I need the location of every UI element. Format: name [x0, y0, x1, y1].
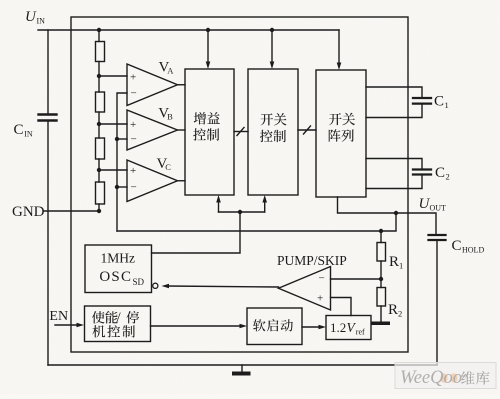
node chain tap A	[97, 74, 101, 78]
wire PUMP/SKIP plus input	[331, 298, 352, 316]
arrow into U3 top	[337, 63, 342, 71]
capacitor C2	[413, 168, 431, 170]
arrow PUMP/SKIP to OSC	[162, 284, 170, 289]
wire C_IN branch	[47, 30, 49, 115]
arrow to softstart	[240, 324, 248, 329]
ground bar under R2	[371, 322, 390, 326]
arrow clock U2	[262, 195, 267, 203]
wire U_IN to switch-array arrow	[338, 30, 340, 63]
node U_IN/chain	[97, 28, 101, 32]
wire softstart to vref	[302, 326, 319, 328]
op-amp V_B	[127, 110, 178, 150]
wire C2 bottom pin	[366, 175, 422, 189]
block 1.2Vref	[326, 316, 371, 340]
text 开关控制	[261, 113, 274, 125]
wire U_OUT feedback branch	[381, 213, 396, 231]
arrow to vref	[319, 325, 327, 330]
wire	[98, 112, 100, 138]
bus slash U2-U3	[304, 126, 311, 134]
resistor R2	[377, 288, 386, 307]
wire U_IN to switch-control arrow	[271, 30, 273, 62]
wire V_A output	[178, 84, 179, 86]
node U_IN/U1	[206, 28, 210, 32]
arrow clock U1	[216, 195, 221, 203]
resistor chain R_c	[96, 138, 105, 159]
node chain tap B	[97, 122, 101, 126]
wire EN input	[55, 324, 78, 326]
node feedback/R1	[379, 229, 383, 233]
wire U_OUT from switch array	[338, 197, 437, 235]
block U2 switch control 开关控制	[248, 69, 298, 195]
wire tap to V_A plus	[99, 75, 127, 77]
wire C2 top pin	[366, 159, 422, 170]
block OSC 1MHz	[85, 245, 152, 293]
capacitor C_IN	[39, 113, 57, 115]
wire V_C minus	[117, 186, 127, 188]
text 软启动	[253, 319, 266, 331]
wire R2 to ground	[380, 306, 382, 322]
resistor chain R_d	[96, 182, 105, 204]
bubble on OSC_SD input	[153, 283, 158, 288]
watermark 维库	[461, 371, 474, 384]
wire U_IN to gain-control arrow	[207, 30, 209, 62]
node V_C minus	[115, 185, 119, 189]
wire clock arrow U1	[218, 202, 220, 212]
wire V_B minus	[117, 138, 127, 140]
wire U_IN rail	[38, 29, 339, 31]
wire OSC clock out	[152, 212, 241, 253]
node chain GND	[97, 209, 101, 213]
wire	[98, 204, 100, 211]
IC inner box	[71, 17, 408, 352]
wire feedback to comparators	[117, 230, 381, 232]
wire clock arrow U2	[264, 202, 266, 212]
wire clock to block bottoms	[219, 211, 265, 213]
wire R1 top	[380, 231, 382, 243]
node clock tee	[238, 210, 242, 214]
wire C1 top pin	[366, 87, 422, 98]
wire C1 bottom pin	[366, 104, 422, 118]
wire V_B output	[178, 129, 186, 131]
block U1 gain control 增益控制	[185, 69, 234, 195]
wire C_HOLD to ground rail	[436, 240, 438, 365]
bus wire U1-U2	[234, 131, 248, 133]
arrow into U1 top	[206, 62, 211, 70]
bus slash U1-U2	[237, 128, 244, 136]
text 增益控制	[194, 112, 206, 124]
bus wire U2-U3	[298, 129, 316, 131]
node U_OUT branch	[394, 211, 398, 215]
node R1/R2 divider	[379, 277, 383, 281]
resistor chain R_b	[96, 92, 105, 112]
capacitor C_HOLD	[429, 234, 446, 236]
ground symbol bottom	[232, 372, 251, 376]
block U3 switch array 开关阵列	[316, 70, 366, 197]
arrow into U2 top	[270, 62, 275, 70]
wire feedback vertical to minus inputs	[117, 93, 127, 231]
ground rail	[48, 364, 437, 366]
arrow EN	[77, 323, 85, 328]
node V_B minus	[115, 137, 119, 141]
node U_IN/U2	[270, 28, 274, 32]
wire R1-R2 node	[380, 261, 382, 288]
op-amp V_A	[127, 64, 178, 106]
wire tap to V_B plus	[99, 123, 127, 125]
node chain tap C	[97, 168, 101, 172]
text 开关阵列	[329, 113, 342, 125]
op-amp PUMP/SKIP	[279, 267, 331, 311]
op-amp V_C	[127, 160, 178, 202]
wire C_IN bottom to ground rail	[47, 121, 49, 366]
wire resistor chain top	[98, 30, 100, 42]
resistor R1	[377, 243, 386, 262]
watermark oo accents	[440, 373, 447, 383]
wire PUMP/SKIP output to OSC	[167, 286, 279, 287]
wire	[98, 159, 100, 182]
wire	[98, 62, 100, 93]
ground stub	[241, 365, 243, 372]
capacitor C1	[413, 97, 431, 99]
text 使能/停机控制	[92, 311, 105, 323]
watermark box	[395, 363, 496, 389]
wire V_C output	[178, 180, 186, 182]
wire divider tap to PUMP/SKIP minus	[331, 278, 382, 280]
wire GND lead	[44, 210, 99, 212]
wire tap to V_C plus	[99, 169, 127, 171]
block enable/shutdown 使能/停机控制	[85, 306, 151, 342]
wire enable to softstart	[151, 325, 241, 327]
block softstart 软启动	[247, 308, 302, 345]
resistor chain R_a	[96, 42, 105, 62]
